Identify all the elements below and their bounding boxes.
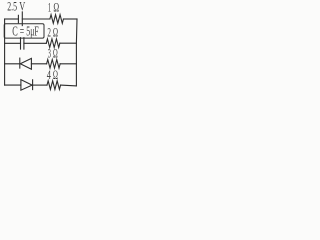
battery B1 short plate (negative) [17,15,19,22]
svg-text:Ω: Ω [53,67,58,82]
svg-text:C: C [12,24,17,39]
svg-text:V: V [19,0,25,14]
capacitor C plate 1 [20,38,22,49]
wire: rung 2 right lead to right border [60,42,77,44]
wire: rung 2 left lead to capacitor [5,42,21,44]
svg-text:Ω: Ω [53,24,58,39]
resistor R2 2 ohm zigzag [46,39,60,48]
label box around C = 5uF [4,24,44,38]
svg-text:=: = [20,24,24,39]
wire: rung 3 left lead to diode D1 [5,63,20,65]
wire: bottom rung from diode D2 to resistor R4 [33,84,47,86]
wire: left border vertical [4,19,6,85]
capacitor C plate 2 [23,38,25,49]
diode D2 cathode bar [32,80,34,90]
wire: top wire right segment to top-right corner [63,18,77,20]
svg-text:2: 2 [47,24,51,39]
wire: rung 3 from diode D1 to resistor R3 [31,63,46,65]
wire: top wire left segment (battery left lead) [5,18,19,20]
resistor R4 4 ohm zigzag [47,81,61,90]
svg-text:Ω: Ω [53,45,58,60]
wire: bottom rung left lead to diode D2 [5,84,21,86]
svg-text:1: 1 [48,0,51,14]
resistor R1 1 ohm zigzag [50,15,64,24]
svg-text:2.5: 2.5 [7,0,17,14]
wire: bottom rung right lead to right border [61,84,77,87]
diode D2 triangle (points right) [21,80,32,91]
diode D1 cathode bar [19,58,21,68]
resistor R3 3 ohm zigzag [47,60,61,69]
wire: rung 2 from capacitor to resistor R2 [24,42,46,44]
diode D1 triangle (points left) [20,58,31,69]
svg-text:Ω: Ω [53,0,59,14]
svg-text:4: 4 [47,67,52,82]
wire: top wire from battery to resistor R1 [22,18,50,20]
svg-text:3: 3 [48,45,51,60]
svg-text:5μF: 5μF [26,24,39,39]
wire: right border vertical [75,19,78,86]
battery B1 long plate (positive) [21,12,23,26]
wire: rung 3 right lead to right border [60,63,76,65]
